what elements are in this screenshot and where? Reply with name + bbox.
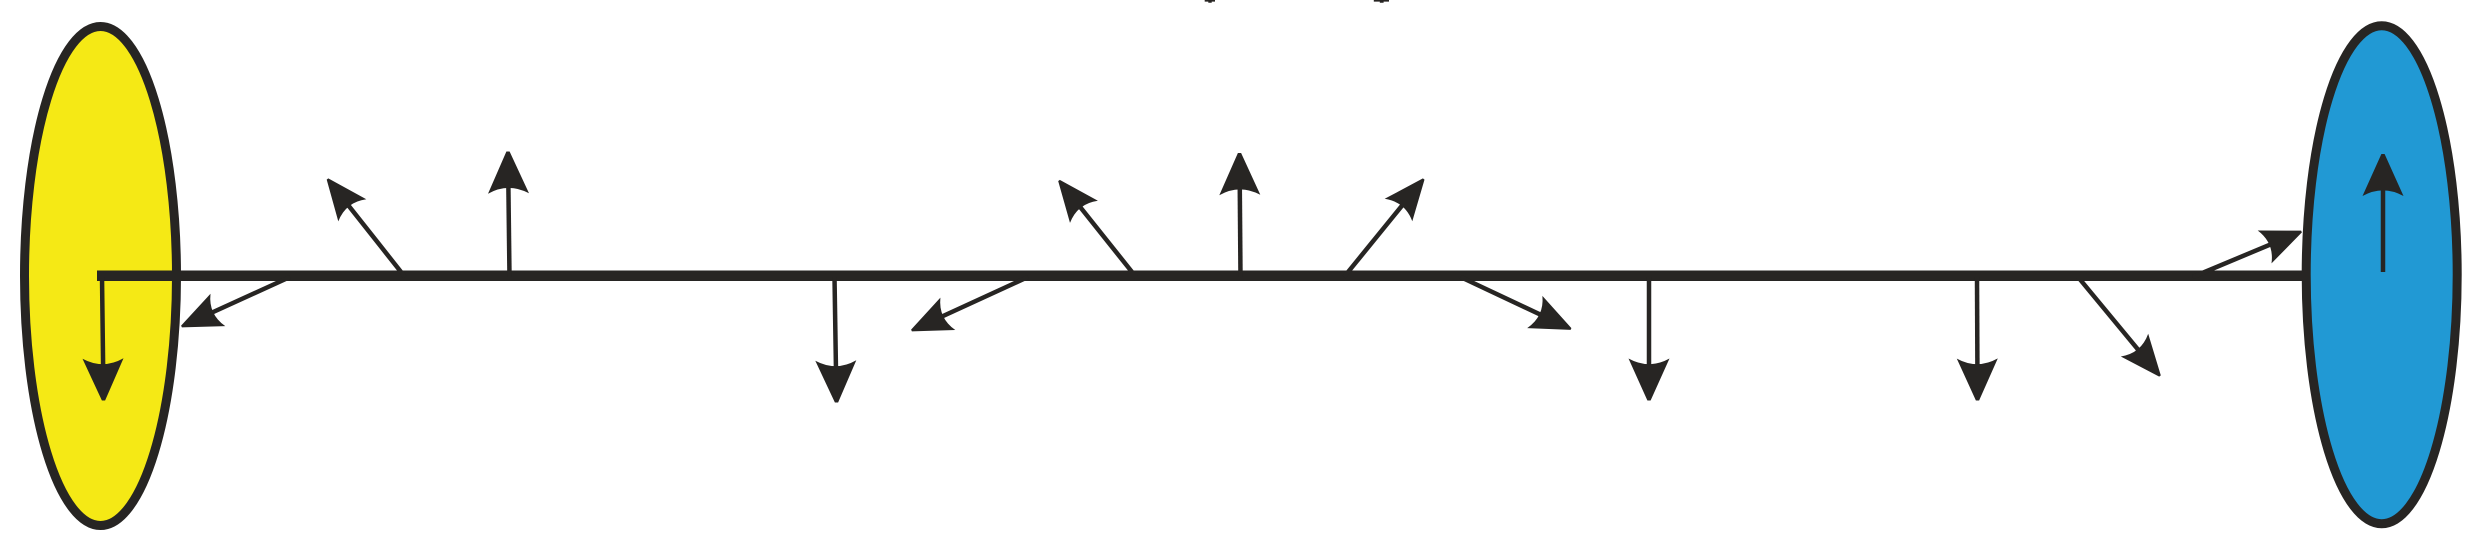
cropped glyph remnant 1 (top)	[1205, 0, 1215, 3]
cropped glyph remnant 2 (top)	[1374, 0, 1389, 3]
arrow A5 down	[815, 277, 856, 403]
arrow A11 down	[1629, 277, 1670, 401]
arrow A14 up-right at blue ellipse edge	[2193, 231, 2302, 278]
arrow A3 up-left	[327, 178, 405, 277]
arrow A6 down-left	[911, 277, 1028, 331]
arrow A12 down	[1957, 277, 1998, 401]
right detector ellipse (blue)	[2306, 26, 2457, 524]
arrow A10 down-right	[1461, 277, 1572, 330]
arrow A15 up (inside blue ellipse)	[2363, 154, 2404, 272]
arrow A7 up-left	[1058, 180, 1136, 277]
arrow A2 down-left at yellow ellipse edge	[181, 277, 290, 327]
arrow A13 down-right	[2078, 277, 2161, 377]
left detector ellipse (yellow)	[25, 27, 177, 526]
arrow A8 up	[1219, 153, 1260, 277]
arrow A9 up-right	[1344, 178, 1425, 277]
particle path line	[97, 271, 2303, 282]
arrow A1 down (inside yellow ellipse)	[83, 277, 124, 401]
arrow A4 up	[488, 152, 529, 278]
